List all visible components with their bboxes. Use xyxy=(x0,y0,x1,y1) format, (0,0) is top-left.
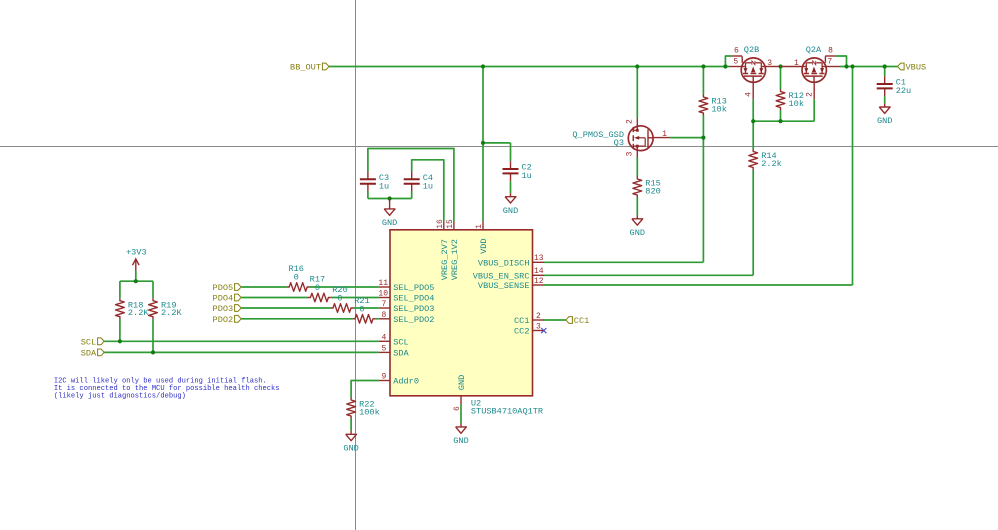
svg-text:5: 5 xyxy=(381,344,386,353)
IC U2 STUSB4710AQ1TR body xyxy=(390,230,533,396)
svg-text:1: 1 xyxy=(794,59,799,68)
wire xyxy=(482,67,484,143)
svg-text:9: 9 xyxy=(381,373,386,382)
capacitor C2 xyxy=(503,161,532,181)
svg-text:CC1: CC1 xyxy=(574,316,589,326)
wire SCL xyxy=(104,340,379,342)
svg-text:100k: 100k xyxy=(359,407,380,417)
svg-text:3: 3 xyxy=(767,59,772,68)
wire xyxy=(482,143,484,222)
svg-text:CC1: CC1 xyxy=(514,316,529,326)
svg-text:2.2K: 2.2K xyxy=(161,308,182,318)
U2 pin 13 (VBUS_DISCH) xyxy=(478,254,544,268)
junction xyxy=(751,119,755,123)
Q2B pin 6 stub xyxy=(731,55,742,57)
wire xyxy=(120,280,153,282)
junction xyxy=(388,196,392,200)
svg-text:Q3: Q3 xyxy=(614,138,624,148)
net label BB_OUT xyxy=(290,63,329,73)
wire xyxy=(852,67,854,286)
svg-text:VDD: VDD xyxy=(479,238,489,253)
capacitor C4 xyxy=(404,172,433,192)
svg-text:GND: GND xyxy=(877,116,892,126)
wire xyxy=(135,271,137,282)
wire VBUS_EN_SRC run xyxy=(544,274,753,276)
svg-text:1u: 1u xyxy=(423,181,433,191)
transistor Q3 Q_PMOS_GSD xyxy=(628,126,653,151)
svg-text:3: 3 xyxy=(626,151,635,156)
junction xyxy=(844,64,848,68)
U2 pin 11 (SEL_PDO5) xyxy=(378,279,434,293)
ground xyxy=(382,199,397,229)
svg-text:STUSB4710AQ1TR: STUSB4710AQ1TR xyxy=(471,406,543,416)
Q2B pin 4 stub xyxy=(752,82,754,99)
U2 pin 10 (SEL_PDO4) xyxy=(378,290,434,304)
U2 pin 7 (SEL_PDO3) xyxy=(379,300,435,314)
wire xyxy=(241,286,287,288)
resistor R17 xyxy=(308,275,331,302)
svg-text:8: 8 xyxy=(828,46,833,55)
U2 pin 14 (VBUS_EN_SRC) xyxy=(473,267,544,281)
resistor R15 xyxy=(633,177,661,198)
wire xyxy=(368,149,454,222)
junction xyxy=(481,141,485,145)
svg-text:Q2B: Q2B xyxy=(744,45,759,55)
U2 pin 9 (Addr0) xyxy=(379,373,419,387)
wire BB_OUT main rail xyxy=(329,66,730,68)
svg-text:SDA: SDA xyxy=(81,348,97,358)
svg-text:22u: 22u xyxy=(896,86,911,96)
resistor R12 xyxy=(776,89,804,110)
wire xyxy=(884,67,886,77)
svg-text:VBUS_EN_SRC: VBUS_EN_SRC xyxy=(473,271,530,281)
Q2B pin 5 stub xyxy=(730,66,742,68)
svg-text:15: 15 xyxy=(446,219,455,229)
svg-text:CC2: CC2 xyxy=(514,327,529,337)
Q3 pin 3 stub xyxy=(636,150,638,157)
wire xyxy=(544,319,566,321)
wire xyxy=(670,137,703,139)
capacitor C3 xyxy=(360,172,389,192)
U2 pin 15 (VREG_1V2) xyxy=(446,219,460,280)
svg-text:12: 12 xyxy=(534,277,544,286)
svg-text:2.2k: 2.2k xyxy=(761,159,782,169)
Q2B pin 3 stub xyxy=(766,66,781,68)
wire xyxy=(310,286,379,288)
svg-text:SEL_PDO3: SEL_PDO3 xyxy=(393,304,434,314)
wire xyxy=(152,281,154,298)
junction xyxy=(778,64,782,68)
U2 pin 3 (CC2) xyxy=(514,322,544,336)
svg-text:1u: 1u xyxy=(522,171,532,181)
svg-text:4: 4 xyxy=(381,333,386,342)
net label SCL xyxy=(81,337,104,347)
svg-text:2: 2 xyxy=(626,119,635,124)
resistor R13 xyxy=(699,95,727,116)
junction xyxy=(701,64,705,68)
junction xyxy=(850,64,854,68)
wire xyxy=(353,307,378,309)
resistor R22 xyxy=(347,398,380,419)
Q2A pin 8 stub xyxy=(825,55,836,57)
svg-text:11: 11 xyxy=(378,279,388,288)
wire xyxy=(412,160,444,222)
ground xyxy=(453,423,468,446)
svg-text:SCL: SCL xyxy=(81,337,96,347)
resistor R16 xyxy=(287,264,310,291)
svg-text:7: 7 xyxy=(827,58,832,67)
junction xyxy=(778,119,782,123)
svg-text:BB_OUT: BB_OUT xyxy=(290,63,321,73)
wire xyxy=(119,281,121,298)
wire xyxy=(753,120,814,122)
svg-text:GND: GND xyxy=(382,218,397,228)
wire xyxy=(752,170,754,275)
wire xyxy=(836,56,847,67)
svg-text:1: 1 xyxy=(475,224,484,229)
note text xyxy=(54,377,280,400)
wire xyxy=(331,297,379,299)
svg-text:SEL_PDO4: SEL_PDO4 xyxy=(393,294,434,304)
wire SDA xyxy=(104,351,379,353)
svg-text:GND: GND xyxy=(503,206,518,216)
ground xyxy=(503,181,518,216)
resistor R20 xyxy=(331,285,354,312)
wire xyxy=(725,56,731,67)
svg-text:PDO5: PDO5 xyxy=(213,283,234,293)
wire xyxy=(152,319,154,352)
wire xyxy=(813,99,815,121)
U2 pin 1 (VDD) xyxy=(475,222,489,254)
wire xyxy=(350,419,352,431)
U2 pin 5 (SDA) xyxy=(379,344,410,358)
wire xyxy=(241,318,352,320)
svg-text:SEL_PDO5: SEL_PDO5 xyxy=(393,283,434,293)
wire xyxy=(780,67,782,90)
wire xyxy=(367,192,369,199)
net label CC1 xyxy=(566,316,589,326)
svg-text:2: 2 xyxy=(805,92,814,97)
wire xyxy=(702,116,704,263)
junction xyxy=(701,136,705,140)
svg-text:16: 16 xyxy=(436,219,445,229)
svg-text:GND: GND xyxy=(457,375,467,390)
svg-text:Addr0: Addr0 xyxy=(393,377,419,387)
resistor R19 xyxy=(149,298,183,319)
svg-text:VBUS: VBUS xyxy=(906,63,927,73)
svg-text:2: 2 xyxy=(536,312,541,321)
svg-text:GND: GND xyxy=(630,228,645,238)
net label PDO2 xyxy=(213,315,242,325)
svg-text:PDO4: PDO4 xyxy=(213,294,234,304)
net label SDA xyxy=(81,348,104,358)
svg-text:8: 8 xyxy=(381,311,386,320)
U2 pin 4 (SCL) xyxy=(379,333,409,347)
svg-text:0: 0 xyxy=(315,283,320,293)
transistor Q2B xyxy=(741,56,765,82)
svg-text:0: 0 xyxy=(337,294,342,304)
wire xyxy=(241,307,330,309)
svg-text:10: 10 xyxy=(378,290,388,299)
U2 pin 8 (SEL_PDO2) xyxy=(379,311,435,325)
wire xyxy=(779,66,783,68)
wire xyxy=(368,198,412,200)
no-connect CC2 xyxy=(541,328,546,333)
wire xyxy=(780,110,782,121)
wire xyxy=(460,404,462,423)
junction xyxy=(118,339,122,343)
U2 pin 2 (CC1) xyxy=(514,312,544,326)
svg-text:10k: 10k xyxy=(711,104,726,114)
Q2A pin 1 stub xyxy=(781,66,802,68)
resistor R14 xyxy=(749,149,782,170)
svg-text:SDA: SDA xyxy=(393,348,409,358)
transistor Q2A xyxy=(802,56,826,82)
net label VBUS xyxy=(898,63,927,73)
Q2A pin 7 stub xyxy=(826,66,839,68)
svg-text:SCL: SCL xyxy=(393,337,408,347)
svg-text:6: 6 xyxy=(453,406,462,411)
svg-text:0: 0 xyxy=(359,305,364,315)
Q3 pin 1 stub xyxy=(653,137,670,139)
Q2A pin 2 stub xyxy=(813,82,815,99)
svg-text:(likely just diagnostics/debug: (likely just diagnostics/debug) xyxy=(54,393,186,401)
svg-text:GND: GND xyxy=(453,436,468,446)
net label PDO4 xyxy=(213,294,242,304)
svg-text:Q2A: Q2A xyxy=(806,45,822,55)
junction xyxy=(134,279,138,283)
net label PDO5 xyxy=(213,283,242,293)
junction xyxy=(481,64,485,68)
svg-text:1: 1 xyxy=(662,130,667,139)
U2 pin 16 (VREG_2V7) xyxy=(436,219,450,280)
svg-text:10k: 10k xyxy=(789,99,804,109)
Q3 pin 2 stub xyxy=(636,119,638,127)
wire xyxy=(510,143,512,161)
wire xyxy=(375,318,378,320)
junction xyxy=(883,64,887,68)
svg-text:SEL_PDO2: SEL_PDO2 xyxy=(393,315,434,325)
wire xyxy=(241,297,308,299)
resistor R21 xyxy=(353,296,376,323)
U2 pin 6 (GND) xyxy=(453,375,467,411)
wire xyxy=(483,142,511,144)
svg-text:VREG_2V7: VREG_2V7 xyxy=(440,239,450,280)
junction xyxy=(635,64,639,68)
svg-text:0: 0 xyxy=(294,273,299,283)
svg-text:13: 13 xyxy=(534,254,544,263)
svg-text:1u: 1u xyxy=(379,181,389,191)
svg-text:3: 3 xyxy=(536,322,541,331)
ground xyxy=(630,198,645,239)
wire VBUS_DISCH run xyxy=(544,261,703,263)
wire xyxy=(636,67,638,119)
net label PDO3 xyxy=(213,304,242,314)
wire VBUS_SENSE run xyxy=(544,284,853,286)
U2 pin 12 (VBUS_SENSE) xyxy=(478,277,544,291)
capacitor C1 xyxy=(877,76,911,96)
wire xyxy=(702,67,704,95)
svg-text:2.2K: 2.2K xyxy=(128,308,149,318)
junction xyxy=(151,350,155,354)
svg-text:VREG_1V2: VREG_1V2 xyxy=(450,239,460,280)
svg-text:VBUS_SENSE: VBUS_SENSE xyxy=(478,281,530,291)
wire xyxy=(351,381,379,398)
wire xyxy=(752,121,754,149)
svg-text:GND: GND xyxy=(343,444,358,454)
svg-text:PDO2: PDO2 xyxy=(213,315,234,325)
svg-text:VBUS_DISCH: VBUS_DISCH xyxy=(478,258,530,268)
svg-text:14: 14 xyxy=(534,267,544,276)
power +3V3 xyxy=(126,247,147,270)
wire xyxy=(840,66,898,68)
svg-text:+3V3: +3V3 xyxy=(126,247,147,257)
wire xyxy=(411,192,413,199)
resistor R18 xyxy=(116,298,150,319)
svg-text:820: 820 xyxy=(645,186,660,196)
svg-text:PDO3: PDO3 xyxy=(213,304,234,314)
svg-text:5: 5 xyxy=(733,58,738,67)
wire xyxy=(752,99,754,121)
svg-text:4: 4 xyxy=(744,92,753,97)
ground xyxy=(343,431,358,454)
junction xyxy=(723,64,727,68)
svg-text:7: 7 xyxy=(381,300,386,309)
svg-text:6: 6 xyxy=(734,46,739,55)
wire xyxy=(119,319,121,341)
wire xyxy=(636,158,638,177)
ground xyxy=(877,96,892,126)
